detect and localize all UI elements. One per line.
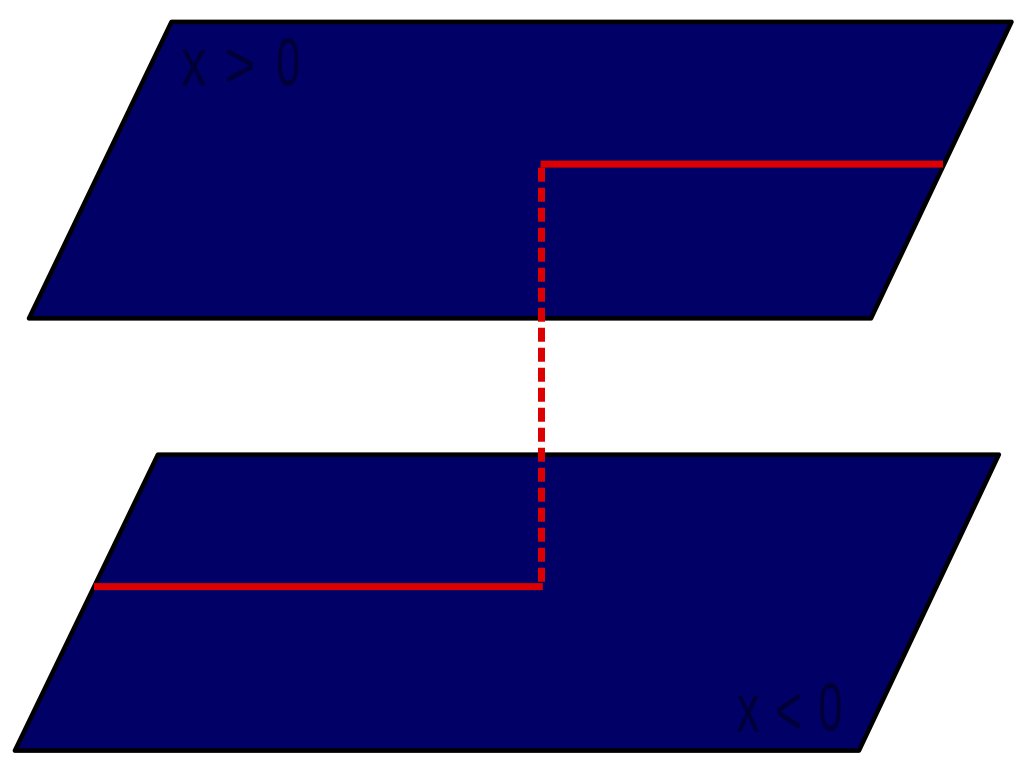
svg-text:<: < xyxy=(775,671,802,750)
svg-text:0: 0 xyxy=(276,24,300,99)
svg-text:x: x xyxy=(181,25,207,100)
svg-text:x: x xyxy=(737,672,760,746)
branch cut: solid segment on bottom sheet xyxy=(94,583,543,590)
svg-text:>: > xyxy=(225,27,256,101)
plane sheet x<0 (bottom parallelogram) xyxy=(15,455,999,751)
branch cut: dashed vertical connector xyxy=(538,168,545,587)
svg-text:0: 0 xyxy=(818,670,842,746)
plane sheet x>0 (top parallelogram) xyxy=(29,22,1012,319)
label x < 0 xyxy=(737,670,843,750)
branch cut: solid segment on top sheet xyxy=(541,161,943,168)
label x > 0 xyxy=(181,24,300,101)
